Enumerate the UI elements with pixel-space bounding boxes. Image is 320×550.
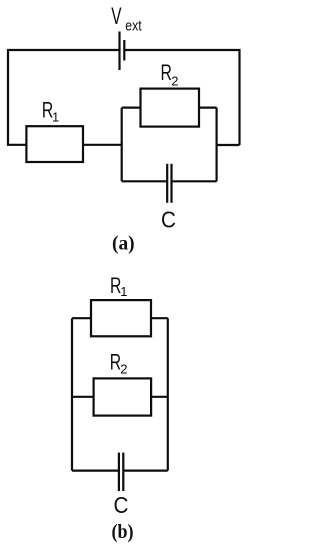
svg-text:R: R [161, 60, 172, 85]
svg-text:V: V [111, 4, 122, 30]
wire capacitor right plate to right branch (circuit b) [123, 470, 168, 472]
wire left branch vertical of parallel section [121, 108, 123, 182]
wire to R1 left terminal (circuit b) [72, 317, 91, 319]
svg-text:ext: ext [125, 17, 142, 33]
label V_ext [111, 4, 142, 34]
wire capacitor right plate to right branch [172, 180, 217, 182]
resistor R1 (circuit a) [26, 126, 83, 162]
wire bottom to capacitor left plate [122, 180, 168, 182]
wire R1 right terminal (circuit b) [151, 317, 168, 319]
wire top-left loop: battery negative terminal to R1 left terminal [8, 50, 120, 145]
wire right branch vertical of parallel section [216, 108, 218, 182]
svg-text:2: 2 [171, 74, 178, 89]
label R1 (circuit b) [110, 274, 127, 299]
svg-text:1: 1 [52, 109, 59, 124]
capacitor C (circuit b) right plate [122, 453, 124, 491]
wire right branch vertical (circuit b) [167, 318, 169, 470]
svg-text:(a): (a) [112, 232, 135, 254]
wire outer right vertical [238, 50, 240, 145]
label R1 (circuit a) [42, 98, 59, 125]
capacitor C (circuit a) left plate [166, 164, 168, 203]
svg-text:C: C [114, 492, 129, 519]
label R2 (circuit b) [110, 350, 128, 377]
wire battery positive terminal along top to right corner [124, 49, 240, 51]
wire R2 right terminal to right branch [199, 106, 217, 108]
wire R1 right terminal to parallel node [83, 144, 122, 146]
battery V_ext (long plate) [118, 32, 120, 71]
resistor R2 (circuit a) [141, 89, 200, 127]
wire R2 right terminal (circuit b) [151, 396, 168, 398]
wire left branch vertical (circuit b) [71, 318, 73, 470]
resistor R1 (circuit b) [91, 300, 151, 336]
wire to R2 left terminal (circuit b) [72, 396, 94, 398]
wire node to R2 left terminal [122, 106, 141, 108]
battery V_ext (short plate) [123, 40, 125, 61]
svg-text:C: C [161, 206, 176, 233]
svg-text:2: 2 [120, 362, 127, 377]
svg-text:(b): (b) [112, 521, 134, 543]
svg-text:1: 1 [120, 284, 127, 299]
wire right connector into parallel section [217, 144, 240, 146]
wire bottom to capacitor left plate (circuit b) [72, 470, 119, 472]
capacitor C (circuit b) left plate [118, 453, 120, 491]
label R2 (circuit a) [161, 60, 179, 88]
resistor R2 (circuit b) [94, 378, 152, 415]
capacitor C (circuit a) right plate [170, 164, 172, 203]
